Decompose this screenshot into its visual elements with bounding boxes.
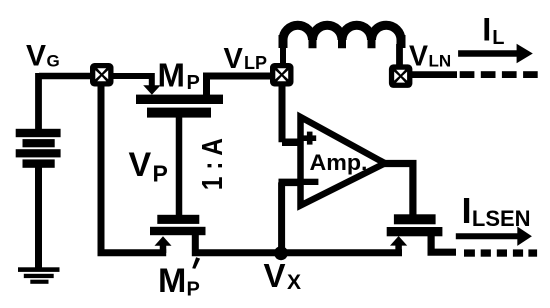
wire MS drain to ILSEN — [431, 235, 456, 252]
svg-text:LN: LN — [429, 51, 452, 70]
svg-text:V: V — [129, 146, 152, 184]
label MP — [158, 57, 200, 95]
label ILSEN — [462, 190, 531, 231]
svg-text:I: I — [482, 12, 491, 48]
svg-text:X: X — [287, 271, 301, 294]
ground — [18, 267, 60, 284]
svg-text:L: L — [492, 27, 504, 49]
arrow shaft MS — [395, 244, 402, 253]
svg-text:G: G — [47, 52, 60, 71]
svg-text:M: M — [158, 262, 186, 300]
svg-text:V: V — [224, 43, 244, 75]
wire op-amp plus input — [282, 138, 302, 146]
minus glyph — [303, 179, 318, 185]
wire VLP down to op-amp plus — [279, 85, 286, 142]
transistor MP' gate bar — [157, 215, 199, 224]
arrow shaft MP' — [160, 244, 167, 253]
current arrow ILSEN — [456, 227, 532, 246]
arrow into MP — [143, 85, 160, 95]
wire op-amp minus input — [279, 179, 303, 187]
transistor MP top bar — [136, 95, 223, 104]
pad symbol X3 at VLN — [389, 64, 413, 88]
wire VG vertical to battery — [35, 73, 42, 130]
sense transistor MS channel bar — [387, 227, 443, 236]
wire VLN to dashed — [411, 71, 457, 78]
svg-text:Amp.: Amp. — [310, 150, 368, 175]
label MP' — [158, 257, 200, 300]
label 1 : A (rotated) — [197, 138, 229, 190]
wire gate line MP to MP' — [176, 116, 183, 216]
node VLN label — [409, 40, 451, 72]
dashed line ILSEN — [464, 249, 537, 256]
wire MP' drain to VX rail — [195, 234, 402, 253]
node VLP label — [224, 43, 268, 75]
node VX dot — [274, 246, 288, 260]
label VX — [264, 257, 302, 294]
svg-text:M: M — [158, 57, 186, 94]
inductor L — [283, 25, 401, 65]
transistor MP' channel bar — [150, 227, 206, 235]
wire op-amp output — [383, 164, 413, 216]
sense transistor MS gate bar — [394, 214, 436, 224]
svg-text:P: P — [187, 278, 200, 300]
battery B1 — [16, 129, 61, 168]
svg-text:I: I — [462, 190, 472, 231]
wire X1 to MP gate arrow — [113, 76, 152, 86]
arrow into MS — [390, 236, 407, 246]
transistor MP bottom bar (gate) — [147, 108, 211, 118]
wire X1 down to bottom rail — [101, 85, 166, 253]
node VG label — [26, 40, 60, 73]
wire VX up to op-amp minus — [278, 182, 285, 250]
label VP — [129, 146, 168, 187]
wire VG horizontal to pad — [39, 73, 95, 80]
arrow into MP' — [155, 236, 172, 246]
pad symbol X1 at VG — [90, 63, 114, 87]
wire coil right leg — [396, 44, 403, 65]
svg-text:V: V — [26, 40, 46, 73]
wire MP drain up to VLP — [207, 76, 272, 96]
dashed line IL — [460, 71, 538, 78]
svg-text:1 : A: 1 : A — [197, 138, 229, 190]
svg-text:P: P — [153, 161, 168, 187]
wire battery to ground — [35, 166, 42, 268]
pad symbol X2 at VLP — [270, 63, 294, 87]
svg-text:LP: LP — [244, 53, 267, 73]
op-amp U1 — [301, 117, 386, 206]
plus glyph — [303, 135, 316, 141]
wire coil left leg — [280, 44, 286, 64]
label IL — [482, 12, 504, 49]
svg-text:LSEN: LSEN — [472, 206, 531, 231]
svg-text:V: V — [264, 257, 286, 294]
svg-text:P: P — [187, 72, 200, 94]
current arrow IL — [458, 44, 533, 64]
